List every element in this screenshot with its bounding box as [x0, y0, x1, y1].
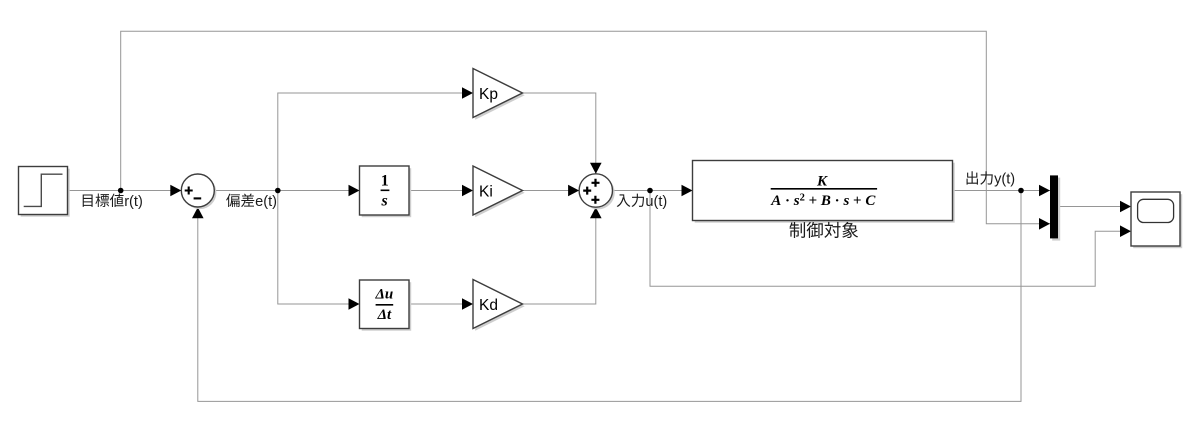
plant transfer function block K/(As^2+Bs+C) — [693, 161, 955, 223]
svg-text:Ki: Ki — [479, 183, 493, 200]
svg-text:Δu: Δu — [375, 286, 394, 302]
wire top bypass r(t) to mux input 2 — [121, 31, 1050, 229]
wire mux to scope input 1 — [1058, 201, 1131, 213]
wire Ki to sum2 left — [523, 185, 580, 197]
node branch r(t) — [118, 188, 124, 194]
label 目標値r(t) — [83, 194, 143, 210]
scope block — [1131, 192, 1182, 248]
svg-text:1: 1 — [381, 172, 389, 189]
wire Kd to sum2 bottom — [523, 207, 602, 304]
wire integrator to Ki — [409, 185, 473, 197]
step source block — [19, 167, 70, 217]
svg-text:r(t): r(t) — [124, 194, 143, 210]
wire Kp to sum2 top — [523, 93, 602, 174]
svg-text:Kp: Kp — [479, 86, 498, 103]
svg-text:e(t): e(t) — [255, 194, 277, 210]
gain block Kd — [473, 280, 525, 331]
svg-text:K: K — [816, 174, 828, 190]
wire u(t) branch to scope input 2 — [650, 191, 1131, 287]
svg-text:Δt: Δt — [377, 307, 392, 323]
label 制御対象 — [790, 222, 859, 238]
wire derivative to Kd — [409, 298, 473, 310]
wire y(t) feedback to sum1 minus — [192, 191, 1021, 402]
sum junction S2 (plus plus plus) — [579, 174, 615, 210]
label 入力u(t) — [617, 194, 668, 210]
svg-text:u(t): u(t) — [645, 194, 667, 210]
integrator block 1/s — [360, 166, 412, 217]
node branch e(t) — [275, 188, 281, 194]
svg-text:A · s2 + B · s + C: A · s2 + B · s + C — [770, 192, 876, 209]
derivative block du/dt — [360, 280, 412, 331]
label 出力y(t) — [967, 171, 1016, 187]
svg-text:s: s — [380, 193, 387, 210]
mux block — [1050, 175, 1060, 240]
node branch u(t) — [647, 188, 653, 194]
svg-text:y(t): y(t) — [994, 172, 1015, 188]
node branch y(t) — [1018, 188, 1024, 194]
wire sum1 to integrator e(t) — [214, 185, 359, 197]
wire sum2 to plant u(t) — [613, 185, 693, 197]
wire e(t) branch down to derivative — [278, 191, 360, 310]
gain block Kp — [473, 69, 525, 120]
sum junction S1 (plus/minus) — [181, 174, 216, 209]
svg-text:Kd: Kd — [479, 297, 498, 314]
wire e(t) branch up to Kp — [278, 87, 473, 190]
gain block Ki — [473, 166, 525, 217]
wire step to sum1 — [68, 185, 182, 197]
label 偏差e(t) — [226, 194, 277, 210]
wire plant to mux input 1 y(t) — [953, 185, 1051, 197]
